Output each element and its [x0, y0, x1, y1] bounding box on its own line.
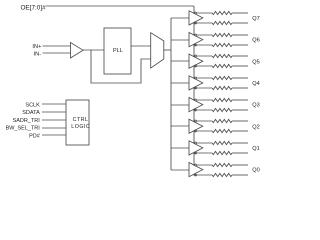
wire Q3 upper to pin [232, 99, 248, 101]
output buffer Q6 [189, 33, 203, 47]
wire PLL output to mux [131, 45, 151, 47]
resistor Q6 lower [212, 43, 232, 46]
resistor Q5 upper [212, 54, 232, 57]
enable bubble lower Q1 [195, 152, 197, 154]
svg-text:CTRL: CTRL [73, 117, 89, 123]
enable bubble upper Q3 [195, 99, 197, 101]
wire SCLK [42, 103, 66, 105]
wire buffer output to PLL [83, 49, 104, 51]
svg-text:SADR_TRI: SADR_TRI [13, 118, 41, 124]
enable bubble upper Q1 [195, 142, 197, 144]
resistor Q3 lower [212, 108, 232, 111]
resistor Q1 upper [212, 141, 232, 144]
wire SADR_TRI [42, 119, 66, 121]
wire Q2 upper to pin [232, 120, 248, 122]
net OE[7:0]# vertical enable bus [193, 6, 195, 175]
svg-text:Q2: Q2 [252, 124, 259, 130]
wire bus tap to Q3 buffer [171, 104, 189, 106]
enable bubble lower Q2 [195, 130, 197, 132]
wire Q2 upper output [193, 120, 212, 122]
wire bus tap to Q0 buffer [171, 169, 189, 171]
wire Q6 upper output [193, 34, 212, 36]
wire Q0 lower output [193, 174, 212, 176]
wire bus tap to Q4 buffer [171, 82, 189, 84]
enable bubble lower Q4 [195, 87, 197, 89]
wire mux output to clock bus [164, 49, 171, 51]
wire Q6 upper to pin [232, 34, 248, 36]
wire PD# [42, 134, 66, 136]
svg-text:Q5: Q5 [252, 59, 259, 65]
wire Q5 upper to pin [232, 55, 248, 57]
wire Q6 lower output [193, 44, 212, 46]
resistor Q2 upper [212, 119, 232, 122]
wire Q3 upper output [193, 99, 212, 101]
output buffer Q5 [189, 54, 203, 68]
wire Q4 upper to pin [232, 77, 248, 79]
enable bubble lower Q0 [195, 174, 197, 176]
input buffer triangle [71, 43, 84, 59]
resistor Q3 upper [212, 98, 232, 101]
output buffer Q4 [189, 76, 203, 90]
resistor Q4 upper [212, 76, 232, 79]
enable bubble upper Q7 [195, 12, 197, 14]
wire Q7 lower output [193, 22, 212, 24]
svg-text:Q3: Q3 [252, 103, 259, 109]
wire Q5 upper output [193, 55, 212, 57]
wire Q1 lower output [193, 152, 212, 154]
wire SDATA [42, 111, 66, 113]
output buffer Q3 [189, 98, 203, 112]
resistor Q0 upper [212, 163, 232, 166]
wire PLL bypass path [91, 50, 151, 83]
svg-text:Q0: Q0 [252, 168, 259, 174]
svg-text:Q1: Q1 [252, 146, 259, 152]
wire Q5 lower to pin [232, 65, 248, 67]
resistor Q5 lower [212, 64, 232, 67]
wire Q1 upper to pin [232, 142, 248, 144]
wire Q3 lower to pin [232, 109, 248, 111]
output buffer Q0 [189, 163, 203, 177]
svg-text:PD#: PD# [29, 133, 41, 139]
svg-text:Q4: Q4 [252, 81, 259, 87]
svg-text:LOGIC: LOGIC [71, 124, 90, 130]
resistor Q2 lower [212, 129, 232, 132]
wire Q0 upper output [193, 164, 212, 166]
wire Q1 lower to pin [232, 152, 248, 154]
resistor Q6 upper [212, 33, 232, 36]
CTRL LOGIC block [66, 100, 89, 145]
svg-text:IN-: IN- [34, 51, 42, 57]
wire Q5 lower output [193, 65, 212, 67]
wire Q3 lower output [193, 109, 212, 111]
svg-text:SDATA: SDATA [22, 110, 40, 116]
svg-text:IN+: IN+ [32, 44, 42, 50]
wire IN+ [43, 45, 71, 47]
clock distribution bus vertical [170, 18, 172, 170]
svg-text:Q6: Q6 [252, 38, 259, 44]
wire Q7 upper output [193, 12, 212, 14]
wire Q2 lower output [193, 130, 212, 132]
enable bubble lower Q6 [195, 44, 197, 46]
svg-text:BW_SEL_TRI: BW_SEL_TRI [6, 126, 41, 132]
wire Q2 lower to pin [232, 130, 248, 132]
enable bubble upper Q4 [195, 77, 197, 79]
output buffer Q7 [189, 11, 203, 25]
wire Q7 upper to pin [232, 12, 248, 14]
wire BW_SEL_TRI [42, 127, 66, 129]
output buffer Q2 [189, 119, 203, 133]
output buffer Q1 [189, 141, 203, 155]
wire bus tap to Q1 buffer [171, 147, 189, 149]
wire Q4 lower to pin [232, 87, 248, 89]
enable bubble upper Q0 [195, 164, 197, 166]
wire bus tap to Q7 buffer [171, 17, 189, 19]
enable bubble upper Q2 [195, 120, 197, 122]
wire IN- [43, 52, 71, 54]
svg-text:SCLK: SCLK [25, 102, 40, 108]
net OE[7:0]# horizontal wire [46, 5, 194, 7]
wire Q6 lower to pin [232, 44, 248, 46]
resistor Q7 upper [212, 11, 232, 14]
wire Q4 upper output [193, 77, 212, 79]
wire bus tap to Q2 buffer [171, 125, 189, 127]
PLL block [104, 28, 131, 74]
resistor Q4 lower [212, 86, 232, 89]
enable bubble lower Q7 [195, 22, 197, 24]
wire Q0 upper to pin [232, 164, 248, 166]
svg-text:PLL: PLL [113, 48, 123, 54]
resistor Q0 lower [212, 173, 232, 176]
enable bubble upper Q6 [195, 34, 197, 36]
wire Q4 lower output [193, 87, 212, 89]
enable bubble lower Q3 [195, 109, 197, 111]
resistor Q7 lower [212, 21, 232, 24]
wire bus tap to Q6 buffer [171, 39, 189, 41]
mux trapezoid [151, 33, 164, 68]
enable bubble lower Q5 [195, 65, 197, 67]
enable bubble upper Q5 [195, 55, 197, 57]
wire Q7 lower to pin [232, 22, 248, 24]
resistor Q1 lower [212, 151, 232, 154]
svg-text:Q7: Q7 [252, 16, 259, 22]
wire bus tap to Q5 buffer [171, 60, 189, 62]
svg-text:OE[7:0]#: OE[7:0]# [20, 4, 46, 11]
wire Q0 lower to pin [232, 174, 248, 176]
wire Q1 upper output [193, 142, 212, 144]
